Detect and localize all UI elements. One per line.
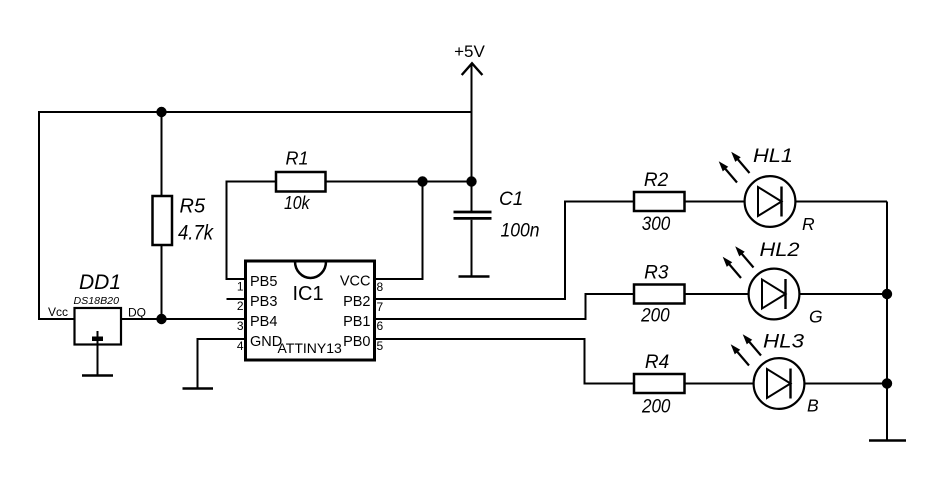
svg-text:200: 200 <box>640 306 670 327</box>
capacitor C1 <box>454 189 540 242</box>
wire R4 to HL3 <box>685 383 756 385</box>
svg-text:R4: R4 <box>645 352 669 373</box>
ground below pin 4 <box>183 387 214 390</box>
wire C1 bottom lead <box>471 220 473 276</box>
wire HL2 to right bus <box>799 293 887 295</box>
IC1 left pin labels <box>250 274 282 350</box>
wire HL3 to right bus <box>804 383 887 385</box>
sensor DD1 DS18B20 <box>48 271 146 345</box>
node junction R5 / DQ wire <box>156 314 166 324</box>
svg-text:R2: R2 <box>644 170 669 191</box>
svg-text:HL2: HL2 <box>760 240 800 261</box>
svg-text:G: G <box>809 307 823 327</box>
svg-text:1: 1 <box>237 280 244 294</box>
svg-text:C1: C1 <box>499 189 523 210</box>
wire pin 2 PB3 stub <box>227 298 247 300</box>
resistor R4 <box>634 352 685 418</box>
svg-text:5: 5 <box>377 339 384 353</box>
wire +5V vertical down to C1 <box>471 112 473 212</box>
wire HL1 to right bus <box>795 201 887 203</box>
IC1 right pin labels <box>340 274 371 351</box>
ground below DD1 <box>82 345 113 376</box>
wire pin 6 PB1 to R3 row <box>375 294 635 319</box>
node junction bus / HL3 row <box>882 378 892 388</box>
svg-text:+5V: +5V <box>454 42 485 61</box>
svg-text:R: R <box>802 214 815 234</box>
wire R1 right lead to +5V <box>326 181 472 183</box>
svg-text:PB4: PB4 <box>250 314 277 330</box>
LED HL3 <box>731 332 819 416</box>
wire R5 bottom lead <box>161 245 163 319</box>
svg-text:8: 8 <box>377 280 384 294</box>
svg-text:DD1: DD1 <box>79 271 121 294</box>
svg-text:PB5: PB5 <box>250 274 277 290</box>
wire right bus vertical <box>886 202 888 441</box>
resistor R1 <box>276 149 326 214</box>
wire pin 7 PB2 to R2 row <box>375 202 635 300</box>
svg-text:R5: R5 <box>180 196 206 218</box>
svg-text:6: 6 <box>377 319 384 333</box>
svg-text:10k: 10k <box>284 193 310 213</box>
svg-text:DS18B20: DS18B20 <box>74 296 120 307</box>
svg-text:ATTINY13: ATTINY13 <box>278 340 343 356</box>
resistor R2 <box>634 170 685 235</box>
svg-text:7: 7 <box>377 300 384 314</box>
IC1 left pin numbers <box>237 280 244 354</box>
svg-text:GND: GND <box>250 334 282 350</box>
svg-text:R3: R3 <box>644 263 669 284</box>
svg-text:PB3: PB3 <box>250 294 277 310</box>
svg-text:100n: 100n <box>501 221 540 242</box>
wire R5 top lead <box>161 112 163 196</box>
LED HL2 <box>723 240 823 327</box>
node junction R1 wire / VCC riser <box>417 176 427 186</box>
ground below C1 <box>459 275 490 278</box>
svg-text:HL1: HL1 <box>753 146 793 167</box>
wire R3 to HL2 <box>685 293 751 295</box>
svg-text:DQ: DQ <box>128 306 146 320</box>
wire pin 8 VCC riser <box>375 182 423 280</box>
+5V power symbol <box>454 42 485 112</box>
ground right bus <box>869 439 906 442</box>
node junction top rail / R5 <box>156 107 166 117</box>
svg-text:R1: R1 <box>286 149 309 169</box>
resistor R5 <box>153 196 215 246</box>
svg-text:300: 300 <box>642 214 671 235</box>
LED HL1 <box>719 146 815 234</box>
wire R1 left lead down to PB5 pin 1 <box>227 182 277 280</box>
svg-text:PB1: PB1 <box>343 314 370 330</box>
svg-text:PB2: PB2 <box>343 294 370 310</box>
svg-text:IC1: IC1 <box>292 283 323 305</box>
svg-text:VCC: VCC <box>340 274 371 290</box>
wire DQ to IC1 PB4 <box>121 318 246 320</box>
IC U1 ATTINY13 body <box>246 261 375 360</box>
IC1 right pin numbers <box>377 280 384 353</box>
wire left vertical to DD1 Vcc <box>39 111 75 319</box>
svg-text:B: B <box>807 396 819 416</box>
wire pin 5 PB0 to R4 row <box>375 339 635 384</box>
node junction R1 wire / +5V line <box>466 176 476 186</box>
svg-text:4: 4 <box>237 339 244 353</box>
wire R2 to HL1 <box>685 201 747 203</box>
svg-text:PB0: PB0 <box>343 334 370 350</box>
svg-text:3: 3 <box>237 319 244 333</box>
resistor R3 <box>634 263 685 327</box>
wire top horizontal rail <box>38 111 472 113</box>
svg-text:Vcc: Vcc <box>48 305 68 319</box>
wire pin 4 GND to ground <box>198 339 247 388</box>
svg-text:2: 2 <box>237 299 244 313</box>
svg-text:HL3: HL3 <box>763 332 805 353</box>
svg-text:4.7k: 4.7k <box>178 222 214 245</box>
svg-text:200: 200 <box>641 397 671 418</box>
node junction bus / HL2 row <box>882 289 892 299</box>
